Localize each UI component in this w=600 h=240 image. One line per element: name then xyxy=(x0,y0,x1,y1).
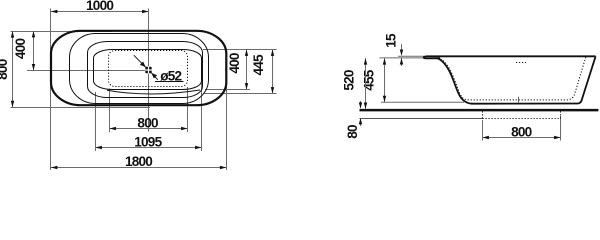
dim 400 right line xyxy=(246,50,248,90)
extension line 1095 right vertical xyxy=(201,71,203,151)
svg-text:ø52: ø52 xyxy=(160,69,182,84)
drain leader SE xyxy=(151,73,157,80)
extension line drain vertical xyxy=(148,9,150,132)
extension rim top line xyxy=(398,55,424,57)
svg-text:520: 520 xyxy=(342,70,357,91)
extension rim tip line xyxy=(380,57,424,59)
dim 1000 line xyxy=(51,11,149,13)
extension recess left vertical xyxy=(482,120,484,141)
svg-text:800: 800 xyxy=(137,115,158,130)
drain leader NW xyxy=(134,55,146,67)
dim 800 bottom line xyxy=(110,128,188,130)
svg-text:800: 800 xyxy=(0,59,10,80)
dim 15 xyxy=(401,44,403,55)
extension line right low xyxy=(204,93,277,95)
drain label shelf xyxy=(155,81,184,83)
extension line right mid xyxy=(205,89,250,91)
dim 520 xyxy=(365,58,367,109)
drain symbol xyxy=(145,66,152,73)
outer shell curve xyxy=(438,58,579,103)
recess dashed bottom xyxy=(483,118,561,120)
extension line 1800 right vertical xyxy=(226,68,228,170)
plinth top bold line xyxy=(360,109,599,112)
dim 80 xyxy=(360,101,362,108)
basin opening outline Oi xyxy=(94,50,202,90)
svg-text:400: 400 xyxy=(13,39,28,60)
tub rim inner outline O2 xyxy=(70,34,209,104)
extension tub underside line xyxy=(381,101,464,103)
svg-text:445: 445 xyxy=(251,54,266,76)
inner shell dotted xyxy=(441,57,586,100)
extension line right top xyxy=(203,49,277,51)
extension line drain horizontal xyxy=(27,70,149,72)
drain tick side view xyxy=(518,97,520,103)
svg-text:1095: 1095 xyxy=(134,134,162,149)
svg-text:455: 455 xyxy=(361,69,376,91)
dim 445 right line xyxy=(272,50,274,94)
extension recess right vertical xyxy=(560,116,562,141)
extension line bottom horizontal xyxy=(11,107,151,109)
dim 1800 line xyxy=(51,167,227,169)
extension line 1095 left vertical xyxy=(95,92,97,151)
overflow dotted mark xyxy=(516,62,526,64)
basin rim outline O3 xyxy=(88,42,203,98)
svg-text:15: 15 xyxy=(384,33,399,48)
dim 800 left line xyxy=(12,31,14,107)
basin flat bottom dashed outline xyxy=(109,51,188,87)
svg-text:800: 800 xyxy=(511,124,532,139)
dim 800 side xyxy=(483,137,561,139)
extension line basin-bottom right vertical xyxy=(187,87,189,132)
extension line left vertical xyxy=(50,9,52,171)
svg-text:80: 80 xyxy=(345,125,360,139)
dim 400 left line xyxy=(33,31,35,71)
seat edge arc xyxy=(107,90,200,94)
extension line basin-bottom left vertical xyxy=(109,89,111,133)
floor line xyxy=(360,118,483,120)
svg-text:1800: 1800 xyxy=(125,154,152,169)
dim 455 xyxy=(384,58,386,102)
rim top line with lip xyxy=(424,56,596,58)
svg-text:1000: 1000 xyxy=(86,0,113,13)
tub outer outline O1 xyxy=(51,31,226,105)
recess dashed left xyxy=(482,111,484,118)
extension line top horizontal xyxy=(11,31,113,33)
recess dashed right xyxy=(560,111,562,118)
dim 1095 line xyxy=(96,147,202,149)
svg-text:400: 400 xyxy=(227,53,242,74)
right wall xyxy=(579,56,596,103)
